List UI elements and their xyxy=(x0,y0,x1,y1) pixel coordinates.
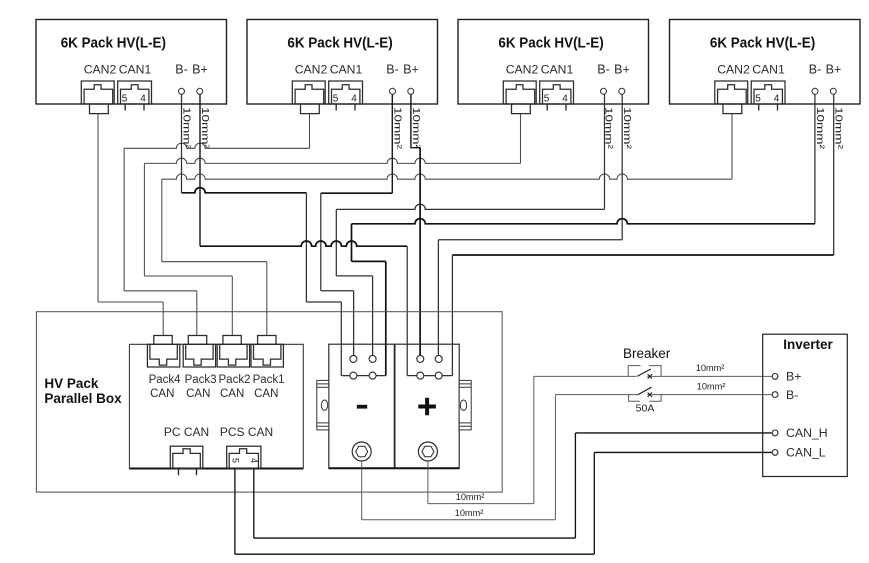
svg-text:HV Pack: HV Pack xyxy=(44,376,99,391)
wire breaker to inverter B- xyxy=(647,394,773,396)
wire pack2 B- drop xyxy=(391,94,393,193)
wire pack4 CAN2 bus at y179 xyxy=(162,174,732,179)
inverter box xyxy=(763,334,848,476)
svg-text:CAN: CAN xyxy=(254,388,278,400)
svg-text:10mm²: 10mm² xyxy=(697,382,726,392)
svg-text:CAN1: CAN1 xyxy=(330,63,363,77)
svg-text:10mm²: 10mm² xyxy=(392,107,403,150)
svg-text:Parallel Box: Parallel Box xyxy=(44,391,122,406)
wire PCS CAN pin5 to inverter CAN_L xyxy=(234,469,236,555)
wire pack4 CAN2 lower run xyxy=(162,261,267,263)
busbar plus terminal b2 xyxy=(435,372,442,379)
svg-text:Breaker: Breaker xyxy=(623,346,671,361)
svg-text:B+: B+ xyxy=(403,63,419,77)
wire pack4 B+ into plus busbar xyxy=(451,255,453,376)
svg-text:Pack2: Pack2 xyxy=(219,374,251,386)
wire pack1 CAN2 to Pack4-CAN vertical drop xyxy=(97,114,99,302)
svg-text:6K Pack HV(L-E): 6K Pack HV(L-E) xyxy=(61,34,166,51)
svg-text:50A: 50A xyxy=(636,403,655,415)
pack U1 CAN1 connector xyxy=(118,81,152,104)
svg-text:CAN: CAN xyxy=(186,388,210,400)
busbar minus terminal b2 xyxy=(369,372,376,379)
svg-text:Pack1: Pack1 xyxy=(253,374,285,386)
wire pack2 B- step vertical x320.8 xyxy=(320,193,322,291)
plus busbar lower terminal rail xyxy=(407,375,452,377)
svg-text:B-: B- xyxy=(386,63,399,77)
svg-text:4: 4 xyxy=(774,94,780,105)
pack U2 CAN1 connector xyxy=(329,81,363,104)
pack U3 CAN1 connector xyxy=(540,81,574,104)
wire pack2 CAN2 vertical drop xyxy=(309,114,311,149)
pack U4 CAN1 pin stubs xyxy=(759,104,778,111)
plus busbar block xyxy=(395,344,459,468)
wire pack4 CAN2 left vertical xyxy=(161,179,163,262)
svg-text:B+: B+ xyxy=(786,370,801,384)
wire pack2 B+ drop xyxy=(411,94,420,147)
svg-text:CAN1: CAN1 xyxy=(752,63,785,77)
svg-text:CAN1: CAN1 xyxy=(119,63,152,77)
battery pack U3 box xyxy=(458,20,649,105)
wire pack1 B- run y192.8 xyxy=(182,188,307,193)
pack U3 CAN1 pin stubs xyxy=(547,104,566,111)
pack U3 B+ terminal xyxy=(619,88,625,94)
wire pack3 B- run y209.4 xyxy=(336,204,604,209)
wire pack4 B+ run y255 xyxy=(452,254,833,256)
parallel box inner unit box xyxy=(129,344,303,468)
PCS CAN connector xyxy=(227,446,261,468)
svg-text:PCS CAN: PCS CAN xyxy=(220,425,273,439)
busbar minus terminal b1 xyxy=(350,372,357,379)
wire pack1 B- step run y302 xyxy=(306,301,341,303)
pack U3 CAN2 connector xyxy=(503,81,536,104)
wire pack3 CAN2 bus at y163 xyxy=(144,158,520,163)
wire pack2 B- run y193.2 xyxy=(321,192,393,194)
pack U4 B- terminal xyxy=(812,88,818,94)
svg-text:10mm²: 10mm² xyxy=(456,492,485,502)
pack U2 B- terminal xyxy=(390,88,396,94)
svg-text:B+: B+ xyxy=(614,63,630,77)
parallel box Pack1 CAN connector xyxy=(258,336,276,345)
wire pack2 CAN2 left vertical xyxy=(123,148,125,290)
breaker pole 2 switch xyxy=(629,395,662,402)
wire pack4 B- step run y261.4 xyxy=(352,260,386,262)
svg-text:4: 4 xyxy=(140,94,146,105)
svg-text:CAN2: CAN2 xyxy=(295,63,328,77)
svg-text:CAN_H: CAN_H xyxy=(786,426,828,440)
wire pack3 CAN2 lower run xyxy=(144,275,232,277)
inverter B- terminal xyxy=(772,392,778,398)
svg-text:CAN_L: CAN_L xyxy=(786,446,826,460)
wire pack1 B+ drop xyxy=(199,94,201,246)
svg-text:6K Pack HV(L-E): 6K Pack HV(L-E) xyxy=(710,34,815,51)
svg-text:B-: B- xyxy=(809,63,822,77)
svg-text:10mm²: 10mm² xyxy=(814,107,825,150)
busbar plus terminal a2 xyxy=(435,355,442,362)
wire pack3 CAN2 drop into Pack2 CAN xyxy=(231,276,233,336)
pack U3 B- terminal xyxy=(601,88,607,94)
battery pack U2 box xyxy=(247,20,438,105)
PC CAN connector pins xyxy=(179,469,197,476)
svg-text:4: 4 xyxy=(351,94,357,105)
wire pack1 CAN2 drop into Pack4 CAN xyxy=(162,302,164,336)
wire pack1 B- step vertical x306 xyxy=(305,193,307,302)
svg-text:CAN2: CAN2 xyxy=(717,63,750,77)
plus busbar symbol xyxy=(418,398,436,416)
minus busbar lower terminal rail xyxy=(341,375,386,377)
wire pack4 B- drop xyxy=(814,94,816,224)
wire pack2 CAN2 bus at y148 xyxy=(124,143,309,148)
wire breaker to inverter B+ xyxy=(647,375,772,377)
battery pack U1 box xyxy=(36,20,227,105)
busbar plus terminal b1 xyxy=(417,372,424,379)
wire pack1 CAN2 horizontal run xyxy=(98,301,163,303)
wire PCS CAN pin4 to inverter CAN_H xyxy=(253,469,255,539)
wire pack2 B- step run y290.8 xyxy=(321,290,354,292)
svg-text:Pack4: Pack4 xyxy=(149,374,182,386)
breaker pole 1 switch xyxy=(628,366,661,377)
pack U2 CAN1 pin stubs xyxy=(336,104,355,111)
wire pack4 B- run y223.8 xyxy=(352,219,815,224)
svg-text:PC CAN: PC CAN xyxy=(164,425,209,439)
svg-text:B-: B- xyxy=(175,63,188,77)
pack U4 B+ terminal xyxy=(830,88,836,94)
wire pack3 CAN2 left vertical xyxy=(143,163,145,276)
svg-text:CAN: CAN xyxy=(220,388,244,400)
wire pack4 B- into minus busbar xyxy=(385,261,387,375)
parallel box Pack4 CAN connector xyxy=(154,336,172,345)
PC CAN connector xyxy=(170,446,203,468)
inverter CAN_L terminal xyxy=(772,450,778,456)
pack U1 B+ terminal xyxy=(197,88,203,94)
wire pack3 B+ drop xyxy=(621,94,623,239)
svg-text:B+: B+ xyxy=(826,63,842,77)
pack U4 CAN2 connector xyxy=(715,81,748,104)
svg-text:10mm²: 10mm² xyxy=(696,363,725,373)
wire pack2 CAN2 lower run xyxy=(124,290,197,292)
svg-text:CAN2: CAN2 xyxy=(506,63,539,77)
wire pack1 B+ into plus busbar xyxy=(406,246,408,375)
wire pack3 B- drop xyxy=(604,94,606,209)
minus busbar block xyxy=(329,344,395,468)
svg-text:5: 5 xyxy=(544,94,550,105)
wire pack3 B- step run y275.9 xyxy=(336,275,372,277)
battery pack U4 box xyxy=(670,20,861,105)
wire pack1 B+ run y246.2 xyxy=(200,241,407,246)
wire pack2 B- into minus terminal xyxy=(353,291,355,356)
wire pack3 B+ run y239.7 xyxy=(438,239,622,241)
svg-text:5: 5 xyxy=(230,458,240,463)
wire minus bolt to breaker B- xyxy=(361,461,363,520)
inverter B+ terminal xyxy=(772,374,778,380)
svg-text:B-: B- xyxy=(597,63,610,77)
svg-text:4: 4 xyxy=(249,458,259,463)
svg-text:5: 5 xyxy=(333,94,339,105)
svg-text:B+: B+ xyxy=(192,63,208,77)
wire pack4 B- step vertical x351.5 xyxy=(351,224,353,262)
wire pack1 B- drop xyxy=(181,94,183,193)
pack U2 CAN2 connector xyxy=(292,81,325,104)
svg-text:4: 4 xyxy=(562,94,568,105)
svg-text:Inverter: Inverter xyxy=(783,337,833,352)
busbar blocks bottom edge xyxy=(329,467,459,469)
pack U1 CAN1 pin stubs xyxy=(125,104,144,111)
pack U1 CAN2 connector xyxy=(81,81,114,104)
inverter CAN_H terminal xyxy=(772,430,778,436)
pack U2 B+ terminal xyxy=(408,88,414,94)
wire plus bolt to breaker B+ xyxy=(427,461,429,504)
wire pack4 B+ drop xyxy=(833,94,835,255)
svg-text:CAN: CAN xyxy=(150,388,174,400)
wire pack3 B- step vertical x336.3 xyxy=(335,209,337,276)
wire pack4 CAN2 drop into Pack1 CAN xyxy=(266,262,268,336)
svg-text:10mm²: 10mm² xyxy=(455,508,484,518)
parallel box Pack3 CAN connector xyxy=(188,336,206,345)
minus busbar bolt xyxy=(352,442,371,461)
svg-text:CAN1: CAN1 xyxy=(541,63,574,77)
svg-text:5: 5 xyxy=(122,94,128,105)
wire pack2 CAN2 drop into Pack3 CAN xyxy=(196,291,198,336)
svg-text:CAN2: CAN2 xyxy=(84,63,117,77)
wire pack3 B+ into plus terminal xyxy=(437,240,439,356)
pack U4 CAN1 connector xyxy=(751,81,785,104)
HV pack parallel box xyxy=(36,312,502,492)
svg-text:6K Pack HV(L-E): 6K Pack HV(L-E) xyxy=(498,34,603,51)
busbar left mounting bracket xyxy=(317,380,329,430)
wire pack3 CAN2 vertical drop xyxy=(520,114,522,164)
busbar minus terminal a2 xyxy=(369,355,376,362)
minus busbar symbol xyxy=(357,405,367,409)
parallel box Pack2 CAN connector xyxy=(223,336,241,345)
svg-text:5: 5 xyxy=(755,94,761,105)
plus busbar bolt xyxy=(418,442,437,461)
busbar right mounting bracket xyxy=(459,380,471,430)
svg-text:B-: B- xyxy=(786,388,798,402)
busbar plus terminal a1 xyxy=(417,355,424,362)
wire pack3 B- into minus terminal xyxy=(372,276,374,356)
svg-text:Pack3: Pack3 xyxy=(185,374,217,386)
wire pack2 B+ into plus terminal xyxy=(419,148,421,356)
pack U1 B- terminal xyxy=(179,88,185,94)
svg-text:6K Pack HV(L-E): 6K Pack HV(L-E) xyxy=(287,34,392,51)
wire pack4 CAN2 vertical drop xyxy=(731,114,733,180)
wire pack1 B- into minus busbar xyxy=(340,302,342,376)
busbar minus terminal a1 xyxy=(350,355,357,362)
